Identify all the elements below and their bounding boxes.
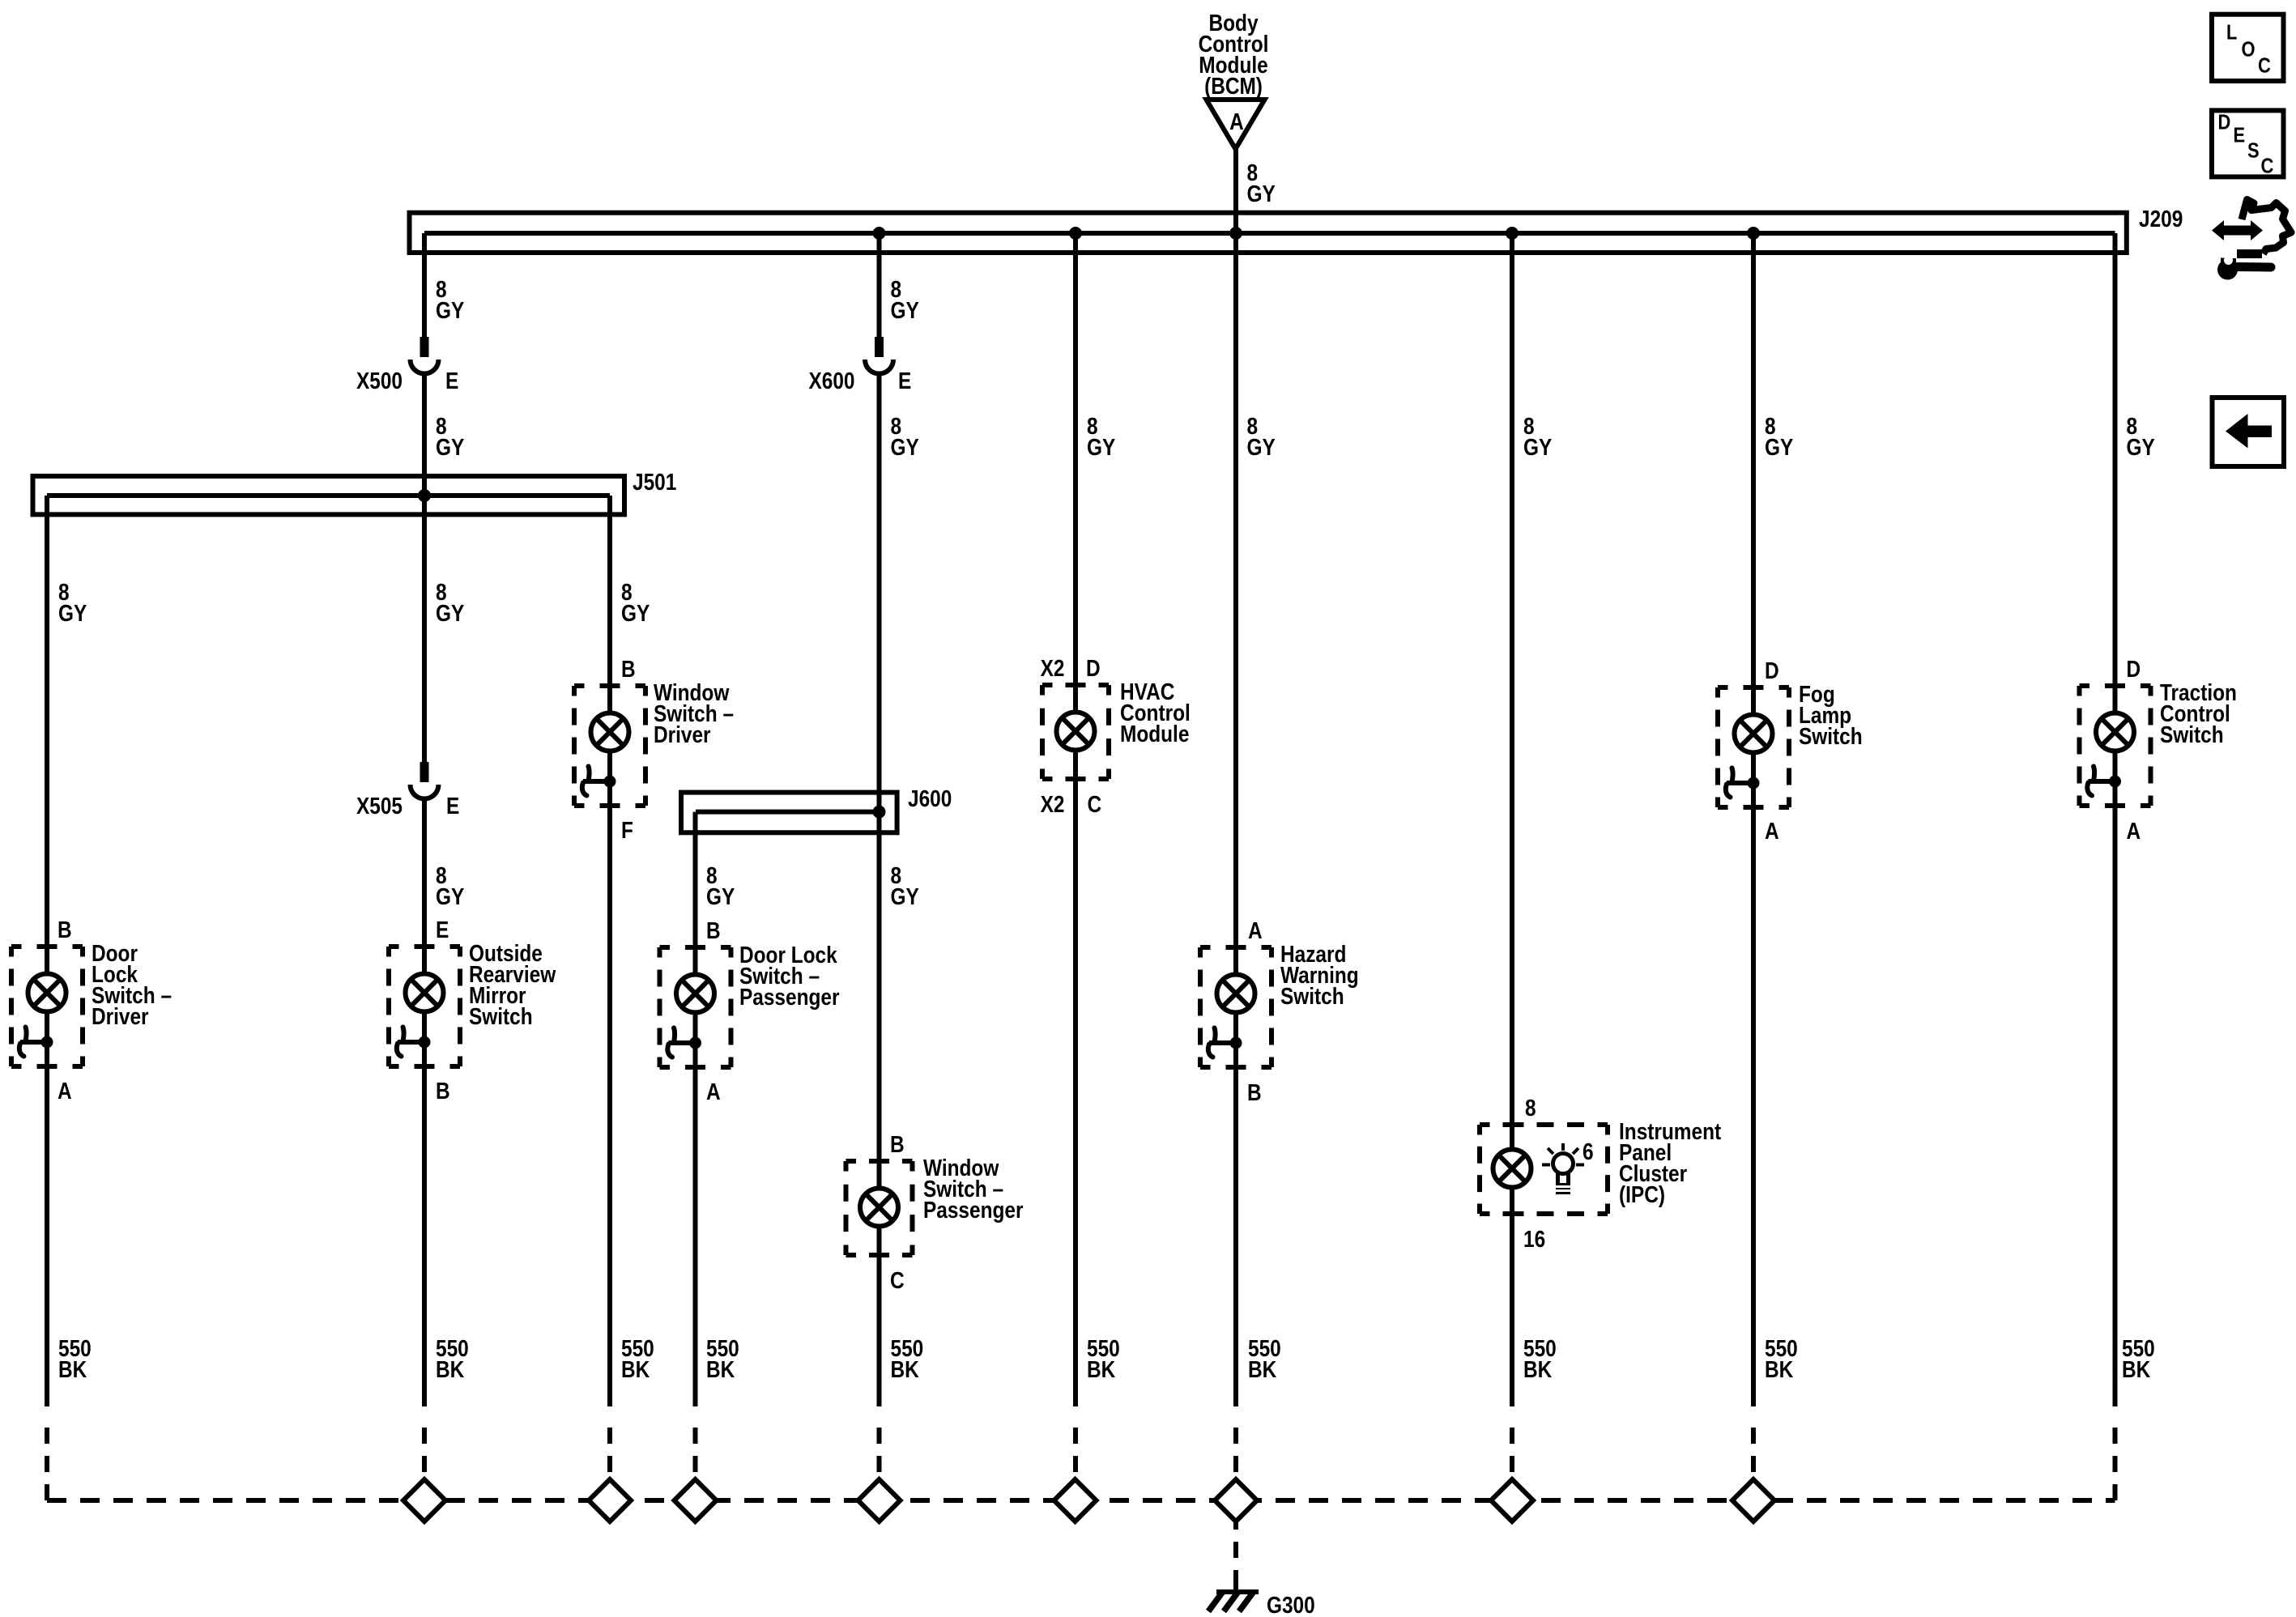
svg-text:D: D (1765, 657, 1779, 683)
svg-text:B: B (621, 656, 636, 682)
svg-text:L: L (2226, 21, 2237, 45)
svg-text:D: D (2218, 111, 2231, 134)
svg-text:Module: Module (1120, 721, 1189, 747)
svg-text:BK: BK (436, 1356, 464, 1382)
svg-text:A: A (1229, 109, 1244, 134)
svg-text:BK: BK (58, 1356, 87, 1382)
svg-text:D: D (1086, 655, 1101, 681)
svg-text:X505: X505 (356, 793, 403, 819)
svg-text:GY: GY (891, 883, 920, 909)
svg-text:Passenger: Passenger (923, 1197, 1023, 1223)
svg-text:GY: GY (1247, 181, 1276, 206)
svg-text:GY: GY (436, 297, 465, 323)
svg-text:8: 8 (1525, 1095, 1536, 1121)
svg-text:B: B (706, 917, 721, 943)
svg-text:(IPC): (IPC) (1619, 1181, 1665, 1207)
svg-text:Passenger: Passenger (739, 984, 839, 1010)
svg-text:Switch: Switch (1280, 983, 1344, 1009)
svg-text:Switch: Switch (469, 1003, 533, 1029)
svg-text:Switch: Switch (1799, 723, 1863, 749)
svg-text:GY: GY (1247, 434, 1276, 460)
svg-text:C: C (1088, 791, 1102, 817)
svg-text:GY: GY (1087, 434, 1116, 460)
svg-text:GY: GY (58, 600, 87, 626)
svg-text:J600: J600 (908, 785, 952, 811)
svg-text:Driver: Driver (92, 1003, 149, 1029)
svg-text:A: A (706, 1079, 721, 1104)
svg-text:C: C (890, 1267, 905, 1293)
svg-text:C: C (2261, 155, 2274, 178)
svg-text:GY: GY (891, 297, 920, 323)
svg-text:X600: X600 (808, 368, 854, 394)
svg-text:X2: X2 (1041, 791, 1065, 817)
svg-text:J209: J209 (2139, 206, 2183, 232)
svg-text:BK: BK (706, 1356, 735, 1382)
svg-text:X500: X500 (356, 368, 403, 394)
svg-text:S: S (2247, 139, 2260, 163)
svg-text:GY: GY (1765, 434, 1794, 460)
svg-text:E: E (898, 368, 911, 394)
svg-text:A: A (58, 1078, 72, 1104)
svg-text:GY: GY (436, 434, 465, 460)
svg-text:BK: BK (1087, 1356, 1115, 1382)
svg-text:GY: GY (891, 434, 920, 460)
svg-text:BK: BK (1765, 1356, 1793, 1382)
svg-text:E: E (436, 917, 449, 943)
svg-text:B: B (890, 1131, 905, 1157)
svg-text:D: D (2127, 656, 2141, 682)
svg-text:O: O (2242, 38, 2256, 62)
svg-text:GY: GY (2127, 434, 2156, 460)
svg-text:B: B (58, 917, 72, 943)
svg-text:E: E (2234, 124, 2246, 147)
svg-text:Driver: Driver (654, 721, 711, 747)
svg-text:BK: BK (1523, 1356, 1552, 1382)
svg-text:A: A (1248, 917, 1263, 943)
svg-text:C: C (2258, 54, 2271, 78)
svg-text:GY: GY (706, 883, 735, 909)
svg-text:E: E (446, 793, 459, 819)
svg-text:GY: GY (621, 600, 650, 626)
svg-text:B: B (1247, 1079, 1262, 1105)
svg-text:F: F (621, 817, 633, 843)
svg-text:J501: J501 (633, 469, 676, 495)
svg-text:Switch: Switch (2160, 721, 2224, 747)
svg-text:GY: GY (436, 600, 465, 626)
svg-text:(BCM): (BCM) (1204, 73, 1263, 99)
svg-text:G300: G300 (1267, 1592, 1315, 1617)
svg-text:A: A (2127, 818, 2141, 844)
svg-text:X2: X2 (1041, 655, 1065, 681)
svg-text:BK: BK (2122, 1356, 2150, 1382)
svg-text:GY: GY (1523, 434, 1553, 460)
svg-text:A: A (1765, 818, 1779, 844)
svg-text:GY: GY (436, 883, 465, 909)
svg-text:B: B (436, 1078, 450, 1104)
svg-text:6: 6 (1582, 1138, 1594, 1164)
svg-text:BK: BK (1248, 1356, 1276, 1382)
svg-text:16: 16 (1523, 1226, 1545, 1252)
svg-text:BK: BK (891, 1356, 919, 1382)
svg-text:E: E (445, 368, 458, 394)
svg-text:BK: BK (621, 1356, 650, 1382)
